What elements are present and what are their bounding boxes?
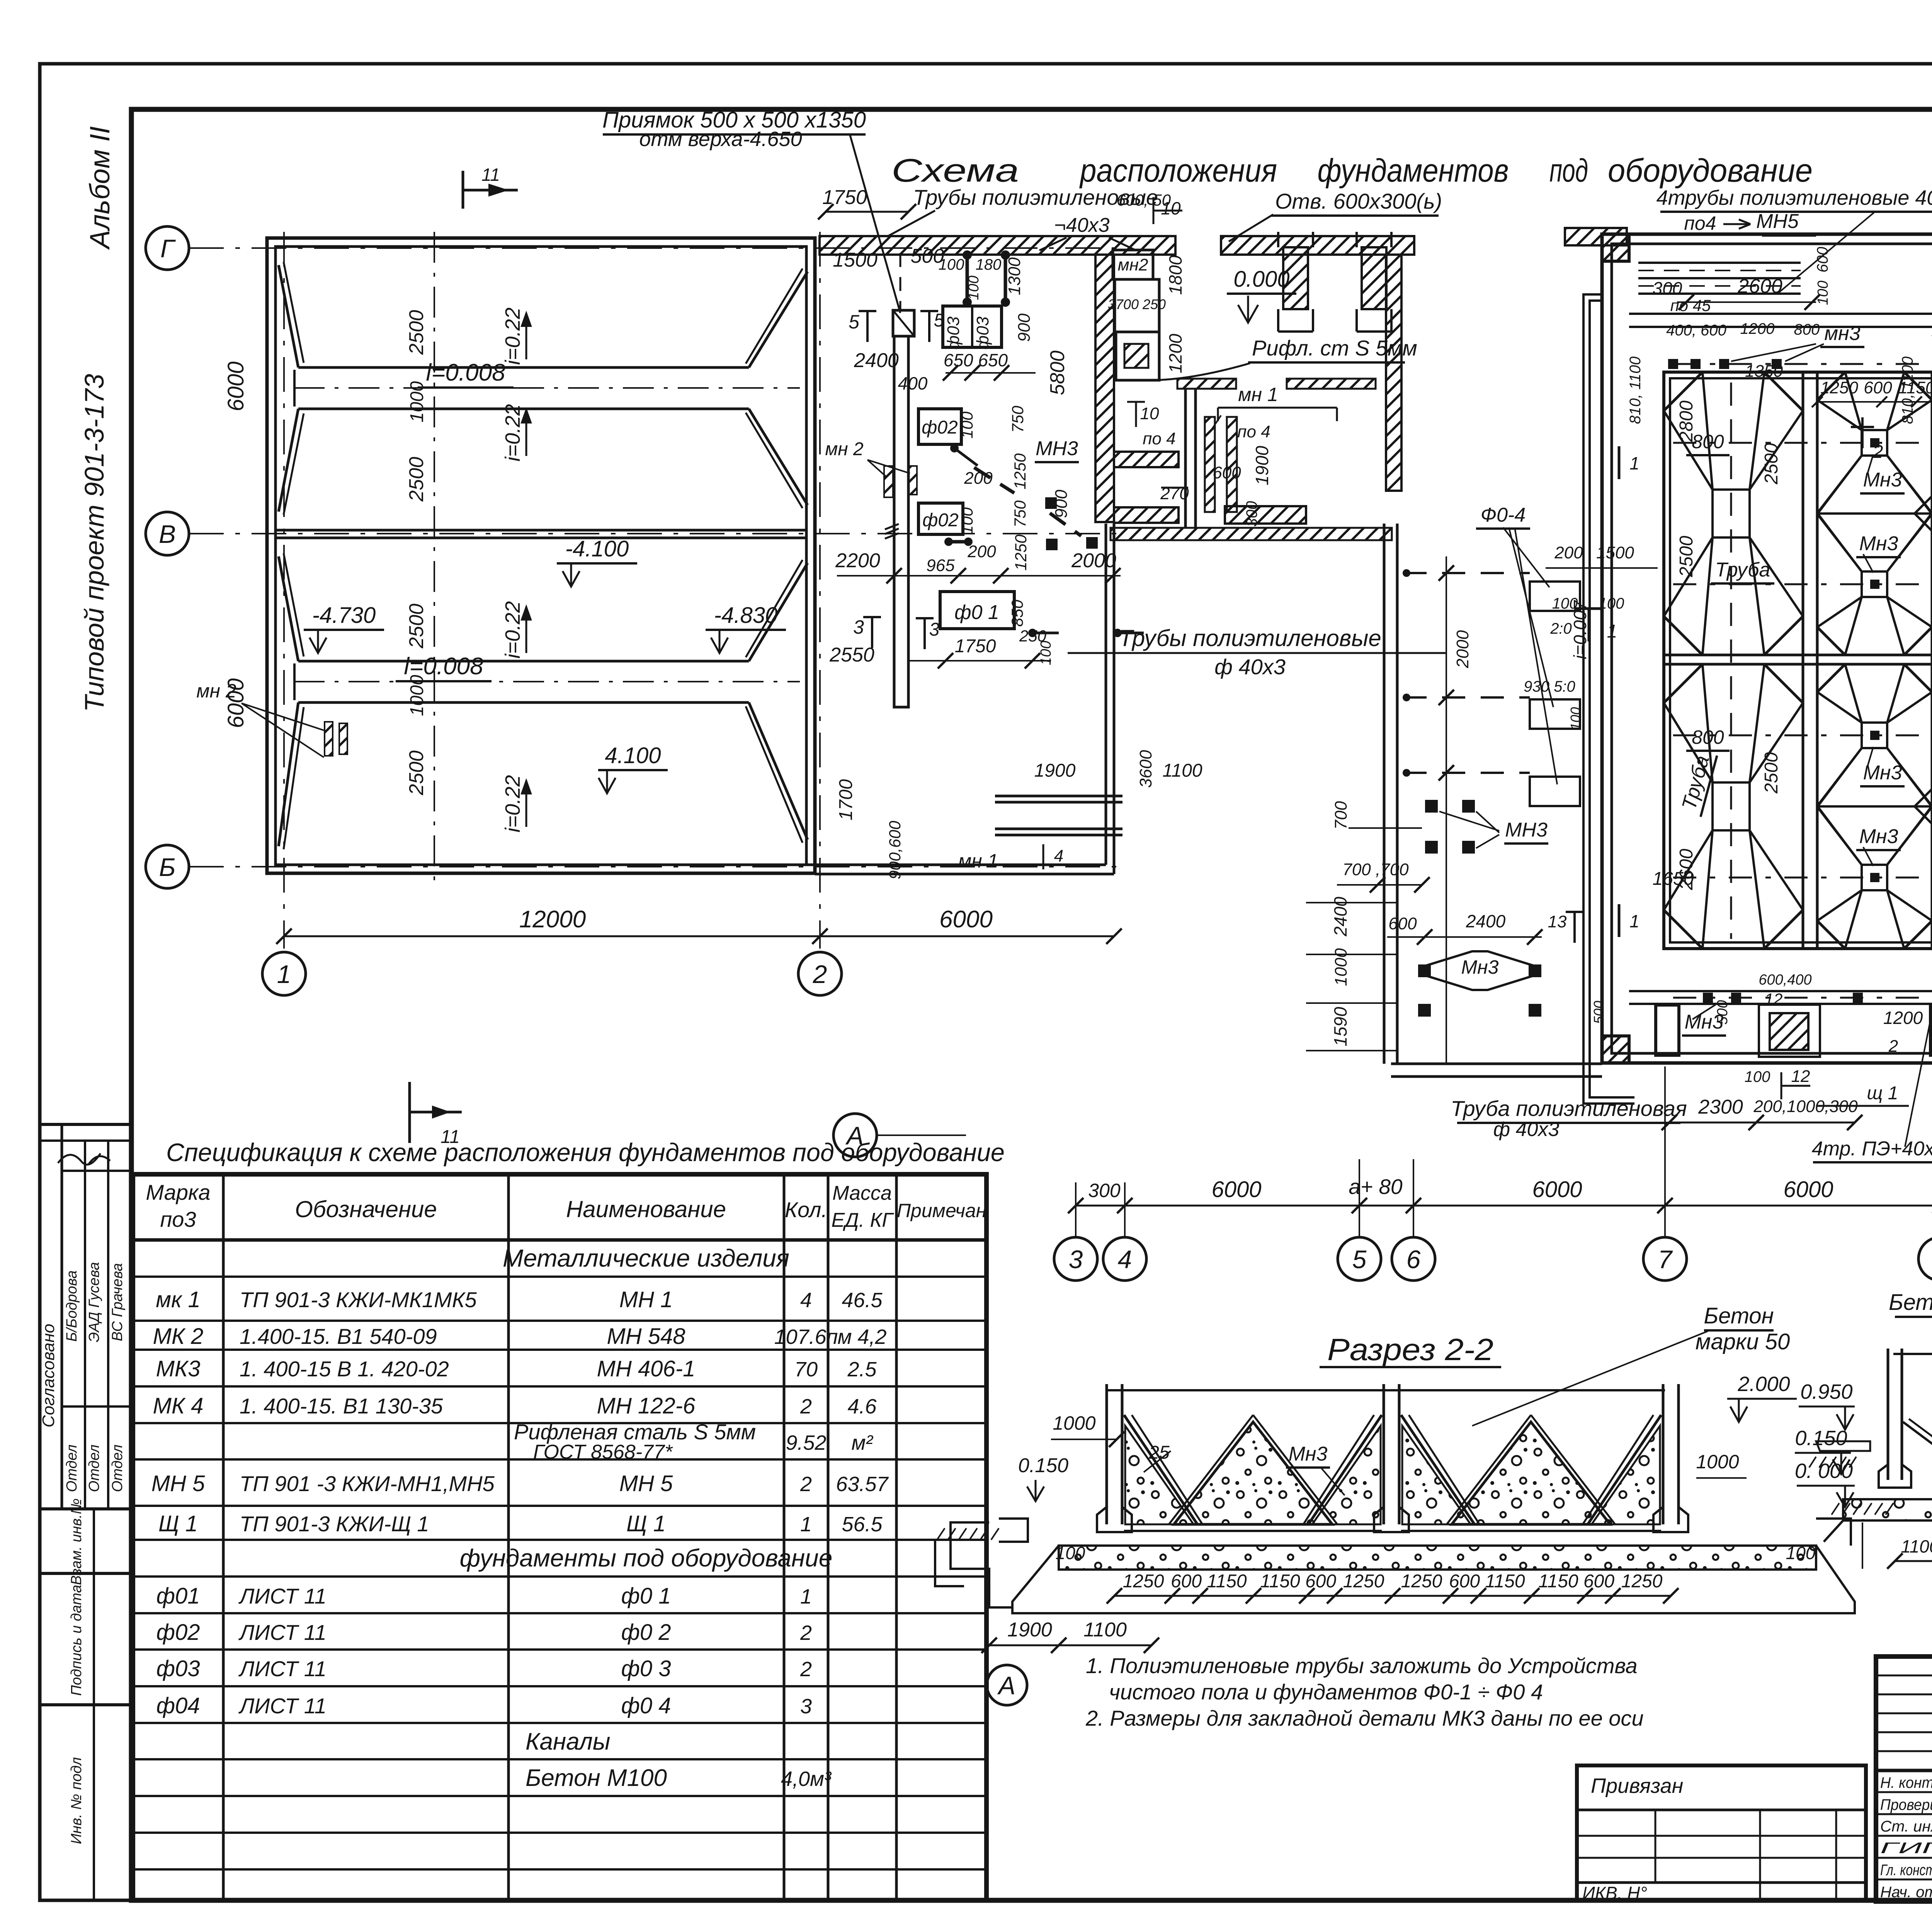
svg-text:Марка: Марка xyxy=(146,1180,210,1204)
svg-text:4трубы полиэтиленовые 40х3: 4трубы полиэтиленовые 40х3 xyxy=(1656,186,1932,209)
svg-text:2:0: 2:0 xyxy=(1550,620,1572,637)
svg-text:2500: 2500 xyxy=(1676,536,1697,577)
svg-text:Отдел: Отдел xyxy=(86,1444,102,1492)
svg-text:70: 70 xyxy=(794,1358,818,1381)
svg-text:МК3: МК3 xyxy=(156,1356,201,1381)
svg-text:9.52: 9.52 xyxy=(786,1431,826,1454)
svg-text:мн3: мн3 xyxy=(1824,322,1860,345)
svg-text:300: 300 xyxy=(1088,1180,1121,1201)
svg-text:3700 250: 3700 250 xyxy=(1108,296,1166,312)
svg-text:6000: 6000 xyxy=(1532,1177,1582,1202)
svg-text:Мн3: Мн3 xyxy=(1859,825,1898,848)
svg-text:Щ 1: Щ 1 xyxy=(158,1511,198,1536)
svg-text:ф03: ф03 xyxy=(944,316,963,350)
svg-text:2500: 2500 xyxy=(1761,443,1782,485)
svg-text:МН5: МН5 xyxy=(1756,210,1799,233)
svg-text:l=0.008: l=0.008 xyxy=(426,359,505,386)
svg-text:Кол.: Кол. xyxy=(785,1197,827,1222)
svg-text:2400: 2400 xyxy=(1466,911,1506,931)
svg-text:ф04: ф04 xyxy=(156,1693,200,1718)
svg-text:1200: 1200 xyxy=(1883,1008,1923,1028)
svg-text:Б: Б xyxy=(159,853,176,881)
svg-text:ЛИСТ 11: ЛИСТ 11 xyxy=(238,1694,327,1718)
svg-text:Б/Бодрова: Б/Бодрова xyxy=(64,1270,80,1342)
svg-text:100: 100 xyxy=(1552,595,1578,612)
svg-text:600: 600 xyxy=(1213,463,1241,482)
svg-text:Отдел: Отдел xyxy=(64,1444,80,1492)
svg-text:мн 1: мн 1 xyxy=(958,850,998,872)
svg-text:ф0 3: ф0 3 xyxy=(621,1656,671,1681)
svg-text:ЭАД Гусева: ЭАД Гусева xyxy=(86,1262,102,1342)
svg-text:1250: 1250 xyxy=(1621,1571,1663,1592)
svg-text:400, 600: 400, 600 xyxy=(1666,322,1726,339)
svg-text:В: В xyxy=(159,520,176,548)
svg-text:2000: 2000 xyxy=(1071,549,1116,572)
svg-text:965: 965 xyxy=(926,556,955,575)
svg-text:по3: по3 xyxy=(160,1207,196,1231)
svg-text:МН3: МН3 xyxy=(1036,437,1078,460)
svg-text:ТП 901-3 КЖИ-Щ 1: ТП 901-3 КЖИ-Щ 1 xyxy=(240,1512,429,1536)
svg-text:4тр. ПЭ+40х3: 4тр. ПЭ+40х3 xyxy=(1812,1138,1932,1160)
svg-text:отм верха-4.650: отм верха-4.650 xyxy=(639,128,802,151)
svg-text:1750: 1750 xyxy=(955,636,996,656)
svg-text:6000: 6000 xyxy=(1211,1177,1261,1202)
svg-text:400: 400 xyxy=(898,373,928,393)
svg-text:2500: 2500 xyxy=(405,310,428,355)
svg-text:м²: м² xyxy=(851,1431,873,1454)
svg-text:900,600: 900,600 xyxy=(886,820,904,879)
svg-text:Труба полиэтиленовая: Труба полиэтиленовая xyxy=(1451,1096,1687,1121)
svg-text:ф03: ф03 xyxy=(156,1656,200,1681)
svg-text:Наименование: Наименование xyxy=(566,1196,726,1222)
svg-text:Мн3: Мн3 xyxy=(1863,469,1902,491)
svg-text:Мн3: Мн3 xyxy=(1461,956,1499,978)
svg-text:фундаментов: фундаментов xyxy=(1318,152,1509,189)
svg-text:Рифленая сталь S 5мм: Рифленая сталь S 5мм xyxy=(514,1420,756,1444)
svg-text:расположения: расположения xyxy=(1079,152,1277,189)
svg-text:5: 5 xyxy=(849,311,859,333)
svg-text:2.5: 2.5 xyxy=(847,1358,877,1381)
svg-text:Гл. констр.: Гл. констр. xyxy=(1880,1862,1932,1879)
svg-text:Разрез 2-2: Разрез 2-2 xyxy=(1327,1332,1493,1367)
svg-text:МН 1: МН 1 xyxy=(619,1287,673,1312)
svg-text:0. 000: 0. 000 xyxy=(1795,1459,1853,1483)
svg-text:2: 2 xyxy=(800,1395,812,1418)
svg-text:0.150: 0.150 xyxy=(1018,1454,1068,1477)
svg-text:МК 2: МК 2 xyxy=(153,1324,204,1349)
svg-text:ГОСТ 8568-77*: ГОСТ 8568-77* xyxy=(533,1441,673,1463)
svg-text:ИКВ. Н°: ИКВ. Н° xyxy=(1582,1883,1647,1903)
svg-text:МН3: МН3 xyxy=(1505,819,1548,841)
svg-text:100: 100 xyxy=(1038,641,1054,665)
svg-text:1100: 1100 xyxy=(1901,1536,1932,1556)
svg-text:200,1000,300: 200,1000,300 xyxy=(1753,1097,1858,1116)
svg-text:Отдел: Отдел xyxy=(109,1444,126,1492)
svg-text:800: 800 xyxy=(1794,321,1820,338)
svg-text:Схема: Схема xyxy=(891,152,1019,189)
svg-text:1100: 1100 xyxy=(1083,1619,1127,1641)
svg-text:810, 1100: 810, 1100 xyxy=(1627,357,1644,424)
svg-text:ВС Грачева: ВС Грачева xyxy=(109,1263,126,1341)
svg-text:100: 100 xyxy=(1056,1543,1085,1563)
svg-text:ф03: ф03 xyxy=(973,316,992,350)
svg-text:ЛИСТ 11: ЛИСТ 11 xyxy=(238,1584,327,1608)
svg-text:2000: 2000 xyxy=(1453,630,1472,668)
svg-text:6000: 6000 xyxy=(223,361,248,411)
svg-text:2: 2 xyxy=(813,960,827,988)
svg-text:по 4: по 4 xyxy=(1237,422,1270,441)
svg-text:Ф0-4: Ф0-4 xyxy=(1481,504,1526,526)
svg-text:ф02: ф02 xyxy=(156,1620,200,1645)
svg-text:1150: 1150 xyxy=(1538,1571,1578,1592)
svg-text:ф 40х3: ф 40х3 xyxy=(1493,1118,1560,1141)
svg-text:1100: 1100 xyxy=(1162,760,1202,781)
svg-text:100: 100 xyxy=(1786,1543,1816,1563)
svg-text:1000: 1000 xyxy=(1053,1412,1095,1434)
svg-text:ТП 901 -3 КЖИ-МН1,МН5: ТП 901 -3 КЖИ-МН1,МН5 xyxy=(240,1471,495,1496)
svg-text:1000: 1000 xyxy=(407,381,427,422)
svg-text:Проверил: Проверил xyxy=(1880,1796,1932,1813)
svg-text:3: 3 xyxy=(853,616,864,638)
svg-text:2. Размеры для закладной: 2. Размеры для закладной детали МК3 даны… xyxy=(1085,1706,1644,1730)
svg-text:0.950: 0.950 xyxy=(1800,1380,1852,1403)
svg-text:2500: 2500 xyxy=(405,750,428,796)
svg-text:Рифл. ст S 5мм: Рифл. ст S 5мм xyxy=(1252,336,1417,360)
svg-text:Металлические изделия: Металлические изделия xyxy=(503,1244,789,1272)
svg-text:i=0.22: i=0.22 xyxy=(501,308,524,365)
svg-text:1800: 1800 xyxy=(1165,255,1185,295)
svg-text:2300: 2300 xyxy=(1698,1096,1743,1118)
svg-text:1900: 1900 xyxy=(1034,760,1076,781)
svg-text:1250: 1250 xyxy=(1123,1571,1164,1592)
svg-text:Мн3: Мн3 xyxy=(1289,1443,1328,1465)
svg-text:810, 1100: 810, 1100 xyxy=(1899,357,1916,424)
svg-text:650 650: 650 650 xyxy=(944,350,1008,370)
svg-text:Альбом II: Альбом II xyxy=(85,126,116,250)
svg-text:мк 1: мк 1 xyxy=(156,1287,201,1312)
svg-text:500: 500 xyxy=(1714,1000,1731,1024)
svg-text:2: 2 xyxy=(800,1621,812,1645)
svg-text:63.57: 63.57 xyxy=(836,1473,889,1496)
svg-text:Нач. отд: Нач. отд xyxy=(1880,1884,1932,1901)
svg-text:Примечан: Примечан xyxy=(897,1200,986,1221)
svg-text:1590: 1590 xyxy=(1330,1007,1350,1046)
svg-text:марки 50: марки 50 xyxy=(1696,1329,1790,1354)
svg-text:500: 500 xyxy=(1591,1001,1607,1024)
svg-text:по 45: по 45 xyxy=(1670,296,1711,315)
svg-text:Отв. 600х300(ь): Отв. 600х300(ь) xyxy=(1275,189,1442,213)
svg-text:ТП 901-3 КЖИ-МК1МК5: ТП 901-3 КЖИ-МК1МК5 xyxy=(240,1287,477,1312)
svg-text:600: 600 xyxy=(1305,1571,1336,1592)
svg-text:300: 300 xyxy=(1243,501,1260,527)
svg-text:мн 2: мн 2 xyxy=(825,439,863,459)
svg-text:-4.100: -4.100 xyxy=(565,536,629,561)
svg-text:1500: 1500 xyxy=(1596,543,1634,562)
svg-text:5: 5 xyxy=(1352,1245,1367,1274)
svg-text:1900: 1900 xyxy=(1007,1619,1052,1641)
svg-text:i=0.22: i=0.22 xyxy=(501,775,524,833)
svg-text:1250: 1250 xyxy=(1401,1571,1442,1592)
svg-text:2800: 2800 xyxy=(1676,400,1697,442)
svg-text:1150: 1150 xyxy=(1485,1571,1525,1592)
svg-text:Мн3: Мн3 xyxy=(1863,762,1902,784)
svg-text:МН 548: МН 548 xyxy=(607,1324,685,1349)
svg-text:ГИП: ГИП xyxy=(1880,1840,1932,1857)
svg-text:100: 100 xyxy=(1568,707,1583,730)
svg-text:Бетон М100: Бетон М100 xyxy=(526,1765,667,1791)
svg-text:3: 3 xyxy=(929,619,940,640)
svg-text:1250: 1250 xyxy=(1012,534,1030,571)
svg-text:600: 600 xyxy=(1864,378,1892,397)
svg-text:1250: 1250 xyxy=(1820,378,1858,397)
svg-text:1200: 1200 xyxy=(1165,333,1185,373)
svg-text:Масса: Масса xyxy=(832,1182,892,1204)
svg-text:100: 100 xyxy=(1815,281,1831,305)
svg-text:13: 13 xyxy=(1548,912,1567,931)
svg-text:100: 100 xyxy=(1599,595,1624,612)
svg-text:1650: 1650 xyxy=(1653,869,1694,889)
svg-text:2.000: 2.000 xyxy=(1737,1372,1790,1396)
svg-text:Ст. инж.: Ст. инж. xyxy=(1880,1818,1932,1835)
svg-text:Трубы полиэтиленовые: Трубы полиэтиленовые xyxy=(1119,625,1381,651)
svg-text:1300: 1300 xyxy=(1005,257,1024,295)
svg-text:чистого пола и фундаменто: чистого пола и фундаментов Ф0-1 ÷ Ф0 4 xyxy=(1109,1680,1543,1704)
svg-text:мн 1: мн 1 xyxy=(1238,384,1278,405)
svg-text:Г: Г xyxy=(160,234,176,263)
svg-text:2: 2 xyxy=(800,1473,812,1496)
svg-text:ф0 1: ф0 1 xyxy=(954,601,999,624)
svg-text:750: 750 xyxy=(1009,405,1027,433)
svg-text:ф01: ф01 xyxy=(156,1583,200,1609)
svg-text:600: 600 xyxy=(1388,914,1417,933)
svg-text:Каналы: Каналы xyxy=(526,1728,611,1755)
svg-text:Подпись и дата: Подпись и дата xyxy=(68,1585,85,1696)
svg-text:600,400: 600,400 xyxy=(1759,972,1811,988)
svg-text:4: 4 xyxy=(800,1289,812,1312)
svg-text:1: 1 xyxy=(277,960,291,988)
svg-text:3600: 3600 xyxy=(1136,750,1155,788)
svg-text:ЛИСТ 11: ЛИСТ 11 xyxy=(238,1620,327,1645)
svg-text:1150: 1150 xyxy=(1260,1571,1300,1592)
svg-text:МК 4: МК 4 xyxy=(153,1393,204,1418)
svg-text:1.400-15. В1 540-09: 1.400-15. В1 540-09 xyxy=(240,1324,437,1349)
svg-text:a+ 80: a+ 80 xyxy=(1349,1175,1403,1199)
svg-text:4: 4 xyxy=(1118,1245,1132,1274)
svg-text:10: 10 xyxy=(1140,404,1159,423)
svg-text:фундаменты под оборудование: фундаменты под оборудование xyxy=(460,1544,833,1572)
svg-text:600: 600 xyxy=(1449,1571,1480,1592)
svg-text:3: 3 xyxy=(1069,1245,1083,1274)
svg-text:ф0 4: ф0 4 xyxy=(621,1693,671,1718)
svg-text:2550: 2550 xyxy=(829,644,874,666)
svg-text:1: 1 xyxy=(1629,911,1639,931)
svg-text:Инв. № подл: Инв. № подл xyxy=(68,1757,85,1844)
svg-text:МН 406-1: МН 406-1 xyxy=(597,1356,696,1381)
svg-text:Труба: Труба xyxy=(1715,559,1770,581)
svg-text:по4: по4 xyxy=(1684,213,1716,234)
svg-text:46.5: 46.5 xyxy=(842,1289,883,1312)
svg-text:1900: 1900 xyxy=(1252,446,1272,485)
svg-text:4.6: 4.6 xyxy=(847,1395,877,1418)
svg-text:600: 600 xyxy=(1171,1571,1202,1592)
svg-text:ф02: ф02 xyxy=(922,417,958,438)
svg-text:Взам. инв.№: Взам. инв.№ xyxy=(68,1498,85,1585)
svg-text:2: 2 xyxy=(1872,442,1883,462)
svg-text:Бетон: Бетон xyxy=(1704,1303,1774,1328)
svg-text:6000: 6000 xyxy=(1783,1177,1833,1202)
svg-text:1. Полиэтиленовые трубы: 1. Полиэтиленовые трубы заложить до Устр… xyxy=(1086,1653,1638,1678)
svg-text:Привязан: Привязан xyxy=(1591,1774,1683,1798)
svg-text:4: 4 xyxy=(1054,847,1063,866)
svg-text:0.000: 0.000 xyxy=(1233,267,1289,292)
svg-text:оборудование: оборудование xyxy=(1608,152,1813,189)
svg-text:1750: 1750 xyxy=(822,186,867,209)
svg-text:2: 2 xyxy=(800,1658,812,1681)
svg-text:ф0 1: ф0 1 xyxy=(621,1583,671,1609)
svg-text:800: 800 xyxy=(1692,726,1724,748)
svg-text:2500: 2500 xyxy=(1761,752,1782,794)
svg-text:под: под xyxy=(1549,152,1588,189)
svg-text:700: 700 xyxy=(1332,801,1350,830)
svg-text:7: 7 xyxy=(1658,1245,1673,1274)
svg-text:по 4: по 4 xyxy=(1143,429,1175,448)
svg-text:1200: 1200 xyxy=(1740,320,1775,337)
svg-text:мн2: мн2 xyxy=(1118,255,1148,274)
svg-text:3: 3 xyxy=(800,1695,812,1718)
svg-text:Н. контр.: Н. контр. xyxy=(1880,1774,1932,1791)
svg-text:1000: 1000 xyxy=(407,675,427,716)
svg-text:100: 100 xyxy=(958,411,976,439)
svg-text:900: 900 xyxy=(1015,313,1034,342)
svg-text:i=0.22: i=0.22 xyxy=(501,404,524,462)
svg-text:1: 1 xyxy=(1607,621,1617,642)
svg-text:12: 12 xyxy=(1765,990,1783,1008)
svg-text:100: 100 xyxy=(939,256,964,273)
svg-text:МН 5: МН 5 xyxy=(619,1471,673,1496)
svg-text:5800: 5800 xyxy=(1046,350,1069,395)
svg-text:850: 850 xyxy=(1008,599,1026,627)
svg-text:-4.730: -4.730 xyxy=(312,603,376,628)
svg-text:1: 1 xyxy=(800,1585,812,1608)
svg-text:1150: 1150 xyxy=(1207,1571,1247,1592)
svg-text:1000: 1000 xyxy=(1696,1451,1739,1473)
svg-text:МН 122-6: МН 122-6 xyxy=(597,1393,696,1418)
svg-text:1: 1 xyxy=(800,1513,812,1536)
svg-text:600: 600 xyxy=(1583,1571,1614,1592)
svg-text:12000: 12000 xyxy=(519,906,586,933)
svg-text:2200: 2200 xyxy=(835,549,880,572)
svg-text:2500: 2500 xyxy=(405,457,428,502)
svg-text:щ 1: щ 1 xyxy=(1867,1083,1898,1104)
svg-text:ЕД. КГ: ЕД. КГ xyxy=(831,1209,894,1231)
svg-text:Мн3: Мн3 xyxy=(1859,532,1898,555)
svg-text:1: 1 xyxy=(1629,453,1639,473)
svg-text:2: 2 xyxy=(1888,1037,1898,1056)
svg-text:200: 200 xyxy=(1554,543,1583,562)
svg-text:6: 6 xyxy=(1406,1245,1421,1274)
svg-text:100: 100 xyxy=(1745,1068,1770,1085)
svg-text:930 5:0: 930 5:0 xyxy=(1524,678,1575,695)
svg-text:i=0.22: i=0.22 xyxy=(501,601,524,659)
svg-text:12: 12 xyxy=(1791,1067,1810,1086)
svg-text:2500: 2500 xyxy=(405,604,428,649)
svg-text:600, 50: 600, 50 xyxy=(1117,191,1171,209)
svg-text:900: 900 xyxy=(1052,490,1071,518)
svg-text:ф02: ф02 xyxy=(922,510,959,531)
svg-text:56.5: 56.5 xyxy=(842,1513,883,1536)
svg-text:Щ 1: Щ 1 xyxy=(626,1511,666,1536)
svg-text:Обозначение: Обозначение xyxy=(295,1196,437,1222)
svg-text:2400: 2400 xyxy=(854,349,899,372)
svg-text:м 4,2: м 4,2 xyxy=(837,1325,886,1349)
svg-text:1250: 1250 xyxy=(1343,1571,1384,1592)
svg-text:107.6п: 107.6п xyxy=(774,1325,838,1349)
svg-text:180: 180 xyxy=(976,256,1002,273)
svg-text:Согласовано: Согласовано xyxy=(39,1324,58,1427)
svg-text:700 ,700: 700 ,700 xyxy=(1342,860,1409,879)
svg-text:ЛИСТ 11: ЛИСТ 11 xyxy=(238,1656,327,1681)
svg-text:5: 5 xyxy=(934,310,944,331)
svg-text:А: А xyxy=(997,1671,1015,1700)
svg-text:ф 40х3: ф 40х3 xyxy=(1214,655,1286,679)
svg-text:300: 300 xyxy=(1653,278,1682,298)
svg-text:1500: 1500 xyxy=(833,249,878,271)
svg-text:1700: 1700 xyxy=(836,779,856,820)
svg-text:4.100: 4.100 xyxy=(605,743,661,768)
svg-text:1250: 1250 xyxy=(1011,453,1029,490)
svg-text:200: 200 xyxy=(964,469,993,488)
svg-text:Спецификация к схеме распол: Спецификация к схеме расположения фундам… xyxy=(166,1138,1005,1167)
svg-text:ф0 2: ф0 2 xyxy=(621,1620,671,1645)
svg-text:¬40х3: ¬40х3 xyxy=(1054,214,1109,236)
svg-text:1. 400-15. В1 130-35: 1. 400-15. В1 130-35 xyxy=(240,1394,443,1418)
svg-text:-4.830: -4.830 xyxy=(714,603,777,628)
svg-text:мн 2: мн 2 xyxy=(196,680,236,702)
svg-text:1. 400-15 В 1. 420-02: 1. 400-15 В 1. 420-02 xyxy=(240,1357,449,1381)
svg-text:6000: 6000 xyxy=(939,906,993,933)
svg-text:БетонМ50: БетонМ50 xyxy=(1889,1290,1932,1315)
svg-text:0.150: 0.150 xyxy=(1795,1427,1847,1450)
svg-text:11: 11 xyxy=(481,165,500,185)
svg-text:Типовой проект 901-3-173: Типовой проект 901-3-173 xyxy=(79,374,109,712)
svg-text:МН 5: МН 5 xyxy=(151,1471,205,1496)
svg-text:200: 200 xyxy=(967,542,996,561)
svg-text:100: 100 xyxy=(958,507,976,534)
svg-text:4,0м³: 4,0м³ xyxy=(781,1767,832,1791)
svg-text:750: 750 xyxy=(1011,500,1029,527)
